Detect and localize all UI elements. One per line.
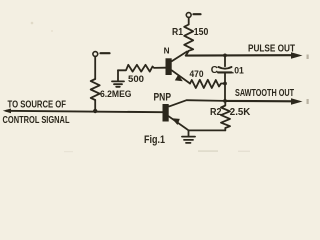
wire: R2 bottom to ground [189, 129, 226, 131]
svg-text:470: 470 [190, 69, 204, 79]
scan artifact (bottom edge smudge) [198, 150, 218, 152]
junction node 470 / C wire [223, 82, 227, 86]
ground (PNP emitter / R2) [182, 130, 195, 143]
transistor Q2 PNP (bar symbol) [163, 100, 226, 130]
svg-text:500: 500 [128, 74, 144, 85]
pulse out line with arrowhead [186, 52, 303, 58]
svg-text:PULSE OUT: PULSE OUT [248, 44, 296, 55]
svg-text:SAWTOOTH OUT: SAWTOOTH OUT [235, 88, 295, 99]
junction node sawtooth line [223, 99, 227, 103]
sawtooth out line with arrowhead [225, 98, 303, 104]
wire: pulse line down to capacitor C [224, 55, 226, 66]
wire: capacitor to sawtooth junction [224, 73, 226, 101]
transistor Q1 NPN (bar symbol) [166, 52, 191, 84]
ground (base bias, near 500) [112, 70, 124, 87]
svg-text:R2: R2 [210, 107, 222, 118]
wire: left terminal down to 6.2MEG [94, 57, 96, 80]
resistor 470 [190, 80, 225, 88]
svg-text:N: N [164, 47, 170, 56]
svg-text:C: C [211, 65, 218, 76]
resistor R2 2.5K [221, 101, 230, 130]
svg-text:Fig.1: Fig.1 [144, 134, 165, 146]
svg-text:2.5K: 2.5K [230, 107, 251, 118]
wire: 6.2MEG to control line [94, 100, 96, 111]
control signal line (with left arrowhead) [3, 109, 163, 114]
scan artifact (right edge near pulse arrow) [307, 55, 309, 60]
svg-text:PNP: PNP [154, 91, 172, 103]
svg-text:R1: R1 [172, 27, 183, 38]
svg-text:CONTROL SIGNAL: CONTROL SIGNAL [3, 115, 70, 126]
scan artifact (right edge near sawtooth arrow) [307, 99, 309, 104]
resistor R1 150 [184, 18, 193, 56]
svg-text:150: 150 [194, 27, 209, 38]
svg-text:6.2MEG: 6.2MEG [100, 89, 132, 100]
terminal (negative supply, left) [93, 52, 110, 57]
junction node pulse line / C [223, 54, 227, 58]
resistor 6.2MEG [91, 79, 100, 100]
terminal (negative supply, top right) [186, 13, 200, 18]
capacitor C .01 [218, 67, 232, 72]
junction node on control line [93, 109, 97, 113]
svg-text:.01: .01 [232, 66, 245, 77]
svg-text:TO SOURCE OF: TO SOURCE OF [8, 99, 67, 110]
resistor 500 [118, 65, 166, 72]
